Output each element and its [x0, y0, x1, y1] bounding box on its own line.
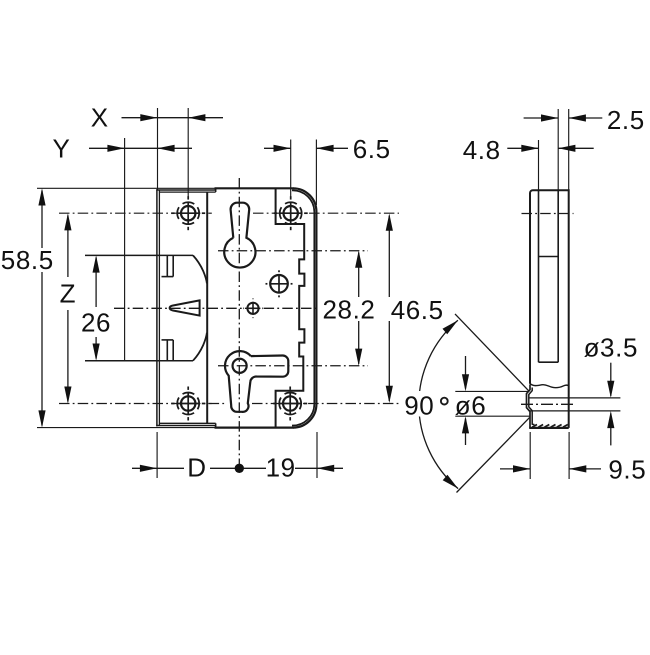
dimension line Z lower [67, 310, 69, 402]
arrow ø3.5 bottom [607, 411, 614, 428]
upper slot right [172, 255, 174, 276]
extension line case right edge up [315, 140, 317, 206]
screw hole top left [177, 212, 199, 214]
dimension line 19 right [295, 467, 343, 469]
arrow 58.5 bottom [38, 410, 45, 427]
upper slot left [166, 255, 168, 276]
dimension line D left [132, 467, 184, 469]
dimension line ø6 lower tail [465, 419, 467, 446]
arrow 9.5 right [569, 465, 586, 472]
break wavy line [530, 383, 569, 387]
spindle hole [233, 359, 247, 373]
arrow ø3.5 top [607, 381, 614, 398]
spindle hole upper line / ext for 3.5 [529, 397, 621, 399]
arrow 28.2 top [355, 251, 362, 268]
side view screw axis centerline [522, 213, 574, 215]
collar outer profile [527, 385, 531, 428]
dimension line Y [89, 147, 192, 149]
screw hole bottom left [177, 403, 199, 405]
latch wedge pointer [170, 300, 200, 315]
dimension line 2.5 right tail [569, 117, 603, 119]
side inner line left [538, 190, 540, 362]
centerline top screws left part [59, 212, 205, 214]
case right edge outer (rounded corners) [293, 188, 316, 427]
side view spindle axis centerline [521, 403, 575, 405]
svg-text:Y: Y [53, 134, 71, 164]
svg-text:4.8: 4.8 [463, 135, 501, 165]
arrow Z top [64, 213, 71, 230]
case right edge inner line [292, 190, 314, 425]
extension line plate left edge up [157, 108, 159, 190]
dimension line 4.8 left tail [507, 147, 538, 149]
arrow 26 bottom [93, 344, 100, 361]
svg-text:19: 19 [266, 452, 296, 482]
arrow D left [140, 465, 157, 472]
dimension line ø6 upper tail [465, 356, 467, 389]
extension line collar bottom flare [455, 415, 529, 417]
case top edge [215, 187, 294, 189]
dimension line 28.2 lower [358, 321, 360, 364]
dimension line 9.5 right tail [569, 468, 601, 470]
dimension line 9.5 left tail [500, 468, 530, 470]
dimension line 26 upper [95, 258, 97, 308]
fan lower ray [457, 418, 530, 493]
plate bottom edge inner [159, 422, 215, 424]
svg-text:D: D [187, 452, 206, 482]
dimension line D-19 middle [210, 467, 266, 469]
fan arc arrow bottom [443, 475, 458, 489]
vertical centerline [238, 178, 240, 471]
dimension line 58.5 lower [41, 272, 43, 426]
plate top edge inner [159, 191, 215, 193]
extension line side right down [568, 432, 570, 479]
svg-text:ø3.5: ø3.5 [584, 332, 638, 362]
lower slot left [166, 340, 168, 361]
dimension line ø3.5 upper tail [610, 363, 612, 396]
hatched bottom band [532, 425, 537, 428]
lever centerline / 28.2 ext bottom [218, 365, 368, 367]
dimension line 26 lower [95, 337, 97, 359]
extension line left edge down [156, 432, 158, 478]
spindle lever (cam) [225, 351, 288, 412]
lower cutout curved corner [193, 333, 207, 361]
cylinder hole [270, 283, 288, 285]
arrow ø6 bottom [462, 416, 469, 433]
extension line inner left up [538, 140, 540, 190]
plate/case bottom step [215, 423, 217, 427]
arrow 19 right [317, 465, 334, 472]
dimension line 58.5 upper [41, 191, 43, 249]
screw hole top right [280, 212, 302, 214]
svg-text:2.5: 2.5 [607, 105, 645, 135]
fan arc arrow top [443, 320, 458, 334]
extension line 58.5 bottom / case bottom lead-in [37, 427, 216, 429]
arrow Y left [107, 145, 124, 152]
arrow Y right [157, 145, 174, 152]
arrow X right [188, 114, 205, 121]
side view outer profile [530, 190, 569, 428]
arrow 6.5 left [274, 145, 291, 152]
plate left edge inner [158, 190, 160, 425]
svg-text:6.5: 6.5 [353, 134, 391, 164]
plate top edge outer [156, 189, 215, 191]
spindle center dot [235, 464, 244, 473]
arrow 46.5 bottom [386, 386, 393, 403]
inner window top [539, 256, 559, 258]
pilot hole [247, 307, 260, 309]
keyhole centerline / 28.2 ext top [218, 250, 368, 252]
dimension line X [122, 117, 224, 119]
reference line Y (door edge) [124, 138, 126, 361]
extension line outer right up [568, 109, 570, 190]
keyhole [224, 203, 255, 268]
extension line screw center up [187, 108, 189, 197]
extension line side left down [529, 432, 531, 479]
spindle hole lower line / ext for 3.5 [529, 410, 621, 412]
centerline dash at plate edge bottom [208, 403, 212, 405]
arrow 4.8 left [521, 145, 538, 152]
upper cutout curved corner [193, 255, 207, 283]
dimension line 46.5 upper [388, 216, 390, 297]
dimension line 6.5 left tail [264, 147, 291, 149]
extension line collar top flare [455, 390, 529, 392]
svg-text:X: X [91, 103, 109, 133]
arrow 58.5 top [38, 188, 45, 205]
svg-text:58.5: 58.5 [1, 245, 54, 275]
extension line inner right up [557, 109, 559, 190]
plate/case top step [215, 188, 217, 192]
arrow 2.5 left [541, 114, 558, 121]
svg-text:90: 90 [404, 391, 434, 421]
arrow ø6 top [462, 374, 469, 391]
collar inner profile [529, 388, 535, 425]
dimension line 2.5 left tail [524, 117, 559, 119]
arrow 2.5 right [569, 114, 586, 121]
centerline bottom screws right part / 46.5 ext bottom [252, 403, 399, 405]
extension line 58.5 top / case top edge lead-in [37, 187, 216, 189]
dimension line 4.8 right tail [558, 147, 594, 149]
horizontal centerline [114, 307, 318, 309]
case bottom edge [215, 427, 294, 429]
svg-text:28.2: 28.2 [322, 295, 375, 325]
side bottom edge [529, 427, 569, 429]
arrow 9.5 left [513, 465, 530, 472]
inner window bottom [539, 361, 559, 363]
plate left edge outer [156, 189, 158, 426]
inner plate notched edge with screw cutouts [276, 189, 305, 427]
svg-text:26: 26 [81, 308, 111, 338]
plate right edge / case left wall [206, 192, 208, 423]
fan arc [419, 320, 458, 488]
dimension line 6.5 right tail [316, 147, 348, 149]
arrow Z bottom [64, 387, 71, 404]
side inner line right [557, 190, 559, 362]
extension line top right screw up [290, 140, 292, 198]
lower slot top cap [162, 339, 174, 341]
arrow 46.5 top [386, 214, 393, 231]
svg-text:ø6: ø6 [455, 390, 487, 420]
arrow 4.8 right [558, 145, 575, 152]
arrow 6.5 right [316, 145, 333, 152]
plate bottom edge outer [156, 425, 215, 427]
centerline bottom screws left part [59, 403, 227, 405]
dimension line 28.2 upper [358, 253, 360, 298]
centerline top screws right part / 46.5 ext top [253, 212, 399, 214]
centerline dash at plate edge top [208, 212, 212, 214]
lower slot right [172, 340, 174, 361]
extension line right edge down [316, 432, 318, 478]
svg-text:46.5: 46.5 [391, 295, 444, 325]
upper cutout top edge + 26 extension top [85, 254, 193, 256]
arrow 28.2 bottom [355, 349, 362, 366]
dimension line ø3.5 lower tail [610, 414, 612, 446]
svg-text:9.5: 9.5 [608, 455, 646, 485]
degree symbol [441, 398, 448, 405]
upper slot bottom cap [162, 276, 174, 278]
fan upper ray [455, 314, 529, 392]
dimension line Z upper [67, 215, 69, 277]
svg-text:Z: Z [60, 279, 76, 309]
screw hole bottom right [279, 403, 301, 405]
arrow 26 top [93, 255, 100, 272]
arrow X left [140, 114, 157, 121]
lower cutout bottom edge + 26 extension bottom [85, 360, 193, 362]
dimension line 46.5 lower [388, 321, 390, 401]
